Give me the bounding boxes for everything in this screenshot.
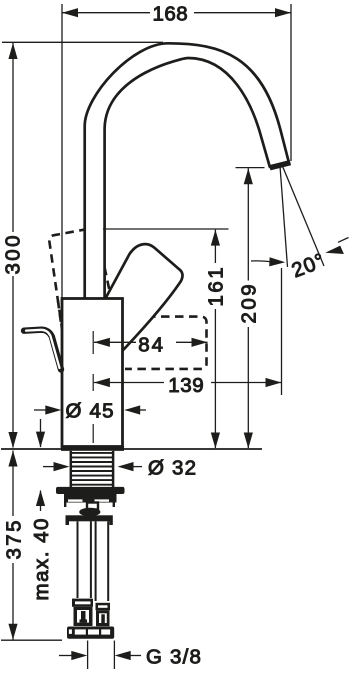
mounting flange bbox=[56, 487, 125, 494]
hose end reference line bbox=[1, 639, 62, 641]
dimension 84 bbox=[94, 338, 208, 347]
spout height reference line y229 bbox=[103, 228, 229, 230]
handle dashed down position bbox=[125, 317, 207, 369]
dimension 209 bbox=[244, 168, 253, 448]
spout outlet aerator bbox=[270, 163, 291, 168]
angle 20 deg label bbox=[289, 249, 329, 283]
lower bracket bbox=[66, 515, 113, 525]
dimension diameter 32 bbox=[43, 462, 142, 471]
svg-text:209: 209 bbox=[237, 282, 260, 324]
hose connector left bbox=[72, 599, 93, 626]
angle 20 deg arrow horizontal bbox=[251, 257, 285, 266]
dimension 139 bbox=[94, 378, 282, 387]
shank stub bbox=[87, 503, 98, 510]
dimension 375 bbox=[8, 451, 17, 640]
mounting washer bbox=[64, 494, 117, 503]
svg-text:161: 161 bbox=[205, 265, 228, 307]
supply hoses bbox=[78, 521, 109, 601]
svg-text:168: 168 bbox=[153, 3, 189, 26]
handle dashed up position bbox=[49, 228, 112, 332]
deck line bbox=[1, 448, 262, 450]
angle 20 deg construction line vertical bbox=[280, 166, 288, 267]
svg-text:Ø 32: Ø 32 bbox=[148, 457, 197, 480]
connector base bbox=[67, 627, 114, 639]
threaded shank bbox=[71, 451, 114, 487]
washer stubs bbox=[64, 502, 115, 507]
angle 20 deg construction line slanted bbox=[282, 165, 324, 266]
dimension 300 bbox=[8, 43, 17, 448]
dimension max 40 bbox=[36, 419, 45, 511]
dimension G 3/8 bbox=[59, 641, 141, 670]
spout tube bbox=[85, 43, 289, 301]
handle solid bbox=[103, 244, 182, 360]
angle 20 deg leader arrow bbox=[325, 238, 348, 255]
dimension diameter 45 bbox=[34, 405, 146, 414]
base plate bbox=[61, 446, 124, 451]
extension line right x291 bbox=[290, 4, 292, 161]
svg-text:375: 375 bbox=[3, 518, 26, 559]
body bbox=[62, 299, 123, 447]
svg-text:max. 40: max. 40 bbox=[30, 517, 53, 600]
dimension 161 bbox=[211, 230, 220, 449]
spout tip reference tick bbox=[236, 167, 265, 169]
svg-text:84: 84 bbox=[138, 333, 165, 356]
svg-text:139: 139 bbox=[168, 374, 204, 397]
svg-text:Ø 45: Ø 45 bbox=[66, 400, 115, 423]
side hook lever bbox=[24, 330, 61, 370]
hose connector right bbox=[96, 603, 111, 626]
svg-text:300: 300 bbox=[2, 233, 25, 274]
outlet extension line x281.5 bbox=[281, 268, 283, 395]
centerline of body bbox=[92, 331, 94, 443]
dimension 168 bbox=[62, 8, 291, 17]
svg-text:G 3/8: G 3/8 bbox=[146, 646, 202, 669]
handle dashed up position hidden edge over body bbox=[58, 301, 62, 329]
mounting nut bbox=[79, 508, 100, 516]
top reference line bbox=[2, 41, 163, 43]
extension line left x62 bbox=[61, 4, 63, 298]
